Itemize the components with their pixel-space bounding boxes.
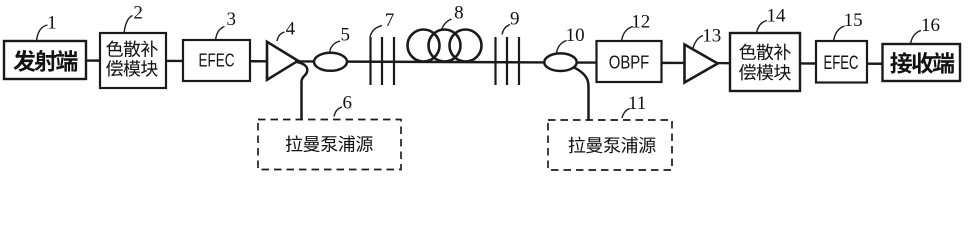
svg-text:EFEC: EFEC bbox=[824, 53, 859, 74]
svg-text:16: 16 bbox=[921, 15, 940, 36]
svg-text:5: 5 bbox=[340, 24, 350, 45]
svg-text:9: 9 bbox=[510, 9, 520, 30]
svg-text:7: 7 bbox=[385, 10, 395, 31]
svg-text:OBPF: OBPF bbox=[609, 52, 650, 73]
svg-text:EFEC: EFEC bbox=[199, 51, 235, 71]
svg-text:13: 13 bbox=[702, 26, 721, 47]
svg-text:15: 15 bbox=[844, 10, 863, 31]
svg-text:8: 8 bbox=[454, 3, 464, 24]
svg-text:11: 11 bbox=[628, 93, 646, 114]
svg-text:10: 10 bbox=[566, 25, 585, 46]
svg-text:2: 2 bbox=[133, 3, 143, 24]
svg-text:14: 14 bbox=[767, 5, 787, 26]
svg-text:12: 12 bbox=[631, 12, 650, 33]
svg-text:6: 6 bbox=[343, 93, 353, 114]
svg-text:3: 3 bbox=[227, 9, 237, 30]
svg-text:4: 4 bbox=[286, 19, 296, 40]
svg-text:1: 1 bbox=[47, 13, 57, 34]
